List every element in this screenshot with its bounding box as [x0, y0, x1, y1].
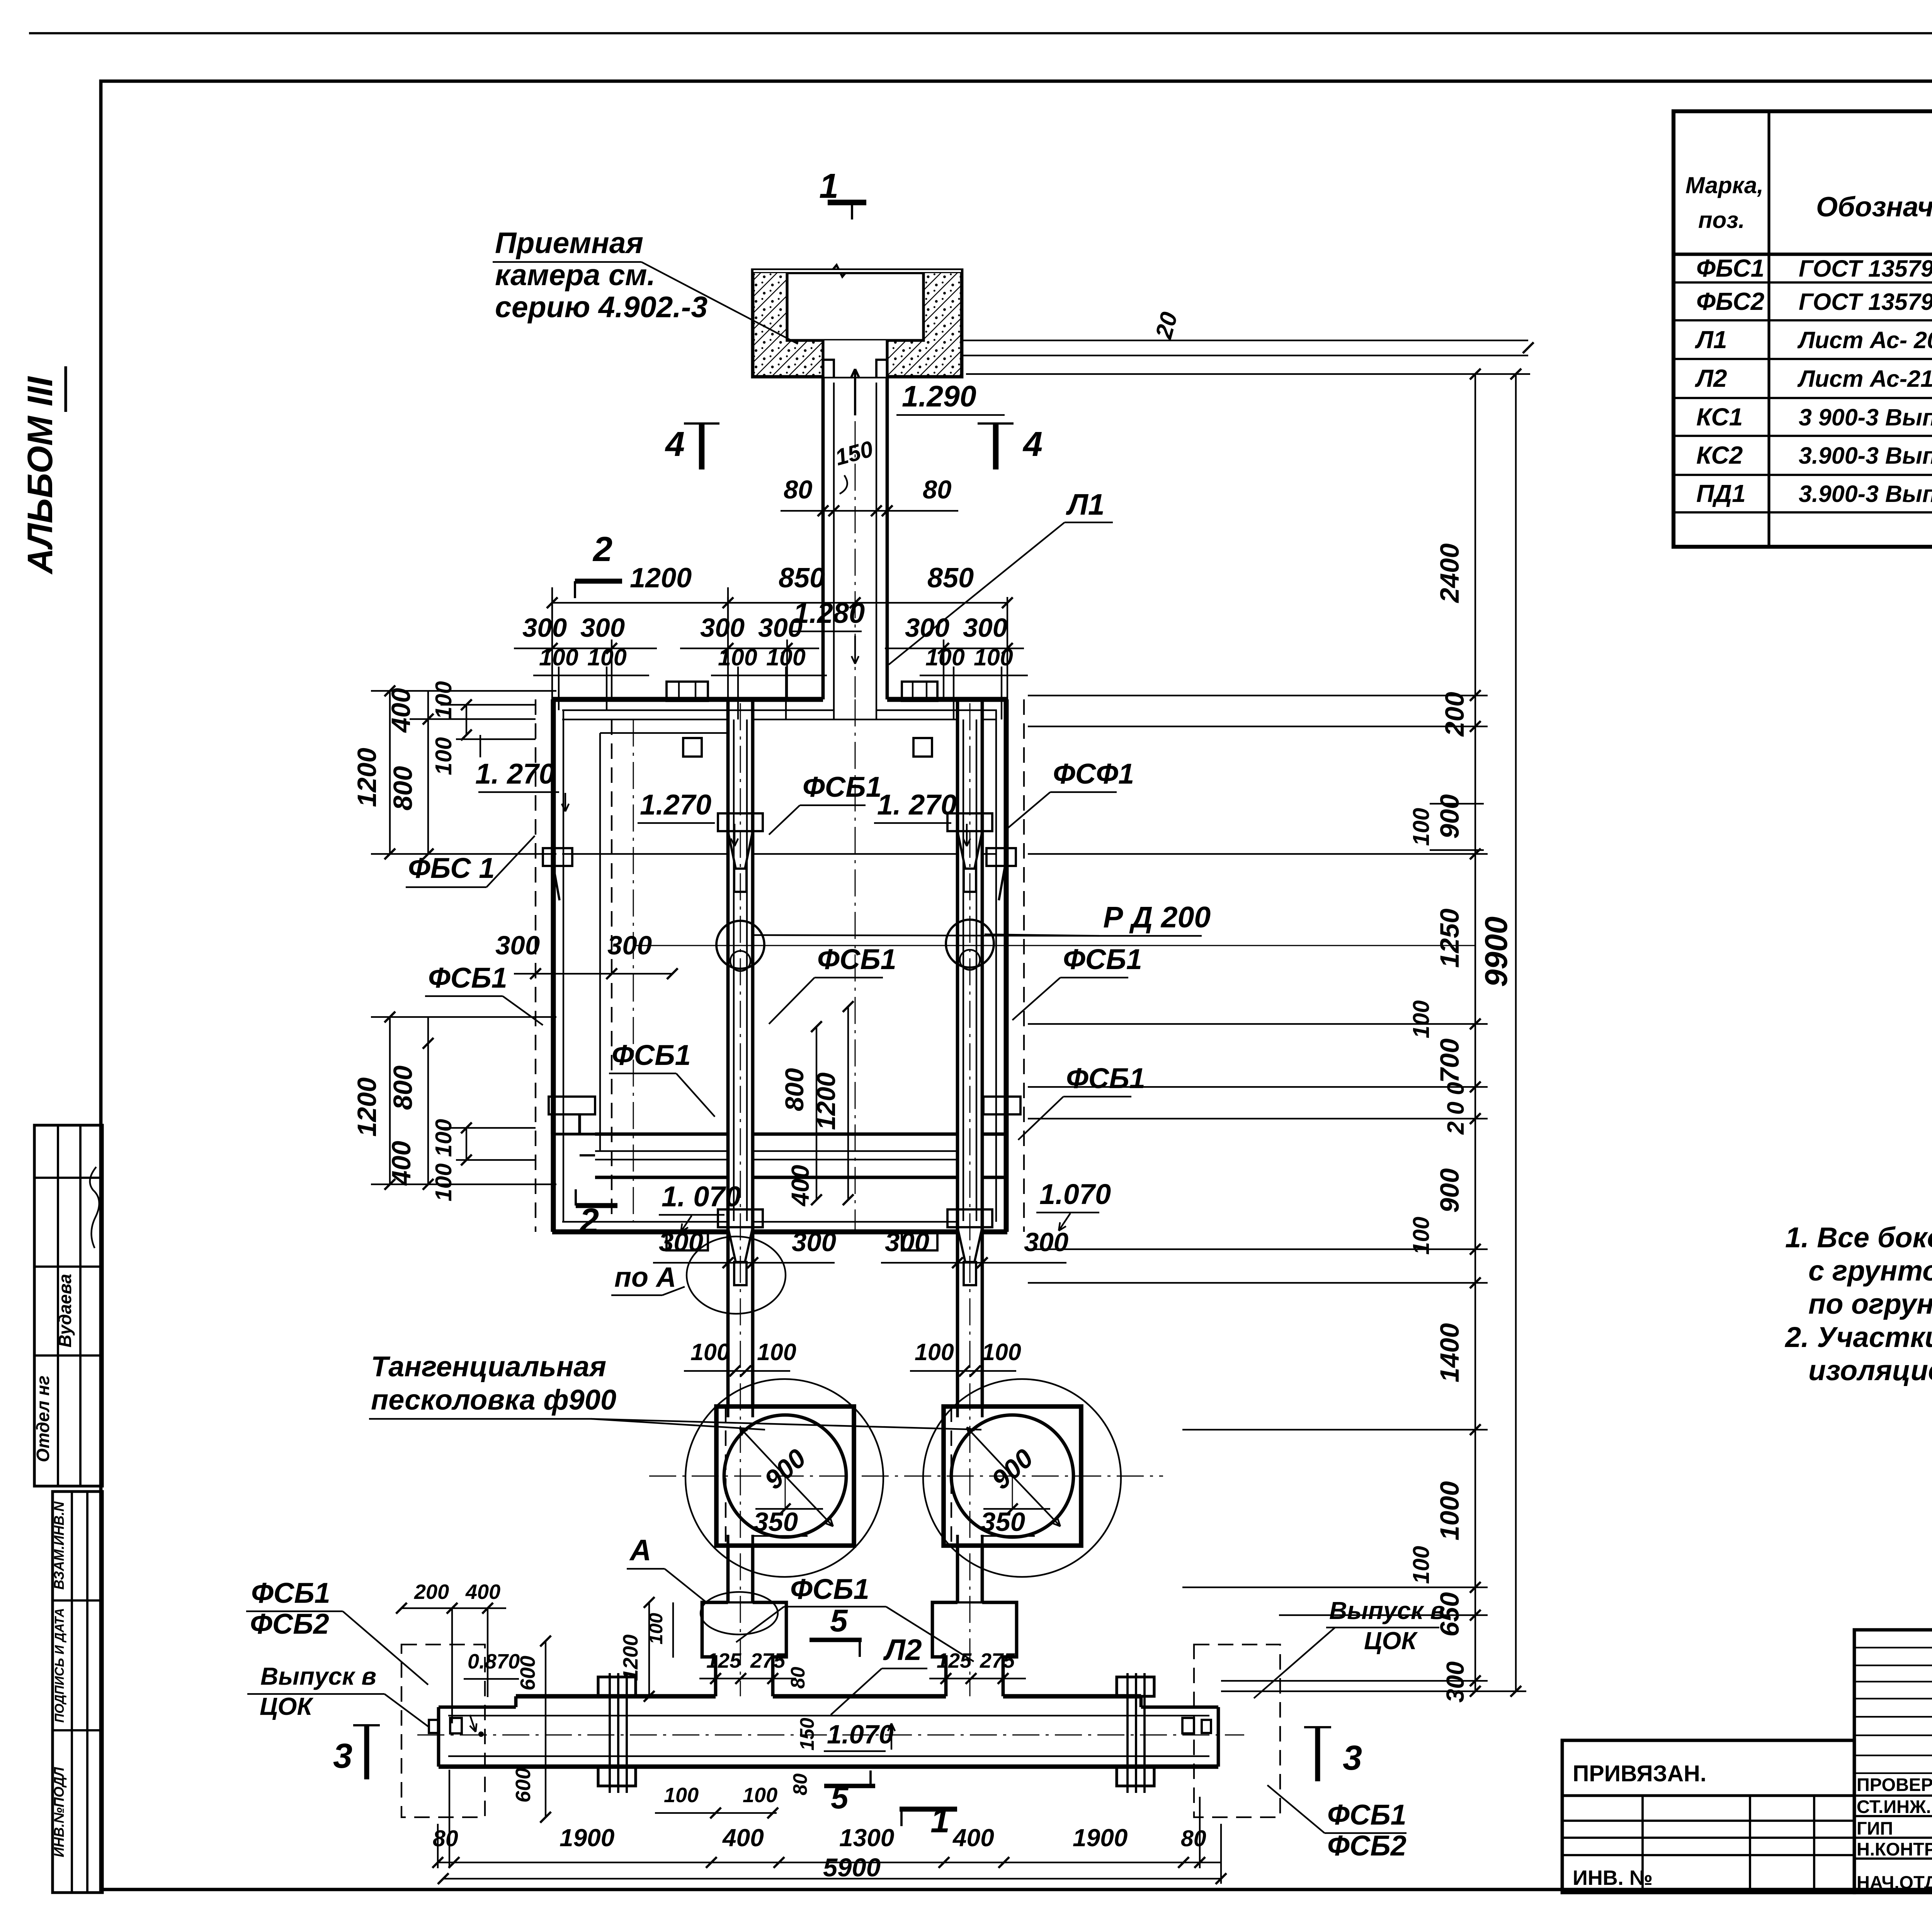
network mid horizontal channel: [595, 1133, 728, 1136]
sand trap left circle: [724, 1415, 846, 1537]
svg-text:ГИП: ГИП: [1857, 1818, 1893, 1838]
svg-text:4: 4: [665, 425, 685, 464]
channel centerlines dash-dot: [740, 703, 741, 1696]
svg-text:поз.: поз.: [1698, 207, 1745, 233]
svg-text:ИНВ. №: ИНВ. №: [1573, 1866, 1653, 1889]
svg-text:100: 100: [1408, 1000, 1434, 1039]
svg-text:300: 300: [522, 613, 567, 643]
svg-text:3 900-3 Вып 7: 3 900-3 Вып 7: [1799, 404, 1932, 430]
svg-text:1.270: 1.270: [640, 789, 711, 821]
dashed end box right: [1194, 1645, 1280, 1817]
svg-text:100: 100: [982, 1339, 1021, 1365]
right chain horizontal extension lines: [1028, 695, 1488, 696]
keyway joints below top wall: [683, 738, 702, 757]
sand trap right diameter dim: [967, 1427, 1012, 1476]
network right dashed outline: [1023, 699, 1025, 1232]
title block left part outline: [1562, 1740, 1854, 1893]
left end flange: [429, 1720, 438, 1733]
sand trap right square: [944, 1406, 1081, 1546]
network top wall: [552, 697, 823, 702]
right end flange: [1202, 1720, 1211, 1733]
svg-text:100: 100: [1408, 1546, 1434, 1584]
svg-text:80: 80: [787, 1667, 809, 1689]
svg-text:ФСБ1: ФСБ1: [1066, 1062, 1145, 1094]
svg-text:ПД1: ПД1: [1696, 480, 1746, 507]
right chain ticks: [1470, 690, 1481, 701]
svg-text:1. 270: 1. 270: [877, 789, 957, 821]
svg-text:ФСБ1: ФСБ1: [817, 943, 896, 975]
svg-text:ФБС2: ФБС2: [1696, 287, 1764, 315]
svg-text:1200: 1200: [352, 1077, 382, 1137]
svg-text:КС2: КС2: [1696, 441, 1743, 469]
svg-text:1300: 1300: [839, 1824, 894, 1852]
svg-text:Обозначение: Обозначение: [1816, 192, 1932, 223]
svg-text:ЦОК: ЦОК: [1364, 1627, 1418, 1655]
spec table columns: [1767, 111, 1770, 547]
cell centerline dash-dot middle: [855, 699, 856, 1231]
left margin stamp table upper: [34, 1125, 102, 1486]
svg-text:400: 400: [786, 1165, 814, 1207]
svg-text:АЛЬБОМ III: АЛЬБОМ III: [20, 376, 60, 575]
svg-text:ФСБ1: ФСБ1: [1063, 943, 1142, 975]
svg-text:серию 4.902.-3: серию 4.902.-3: [495, 291, 707, 324]
chamber label leader: [641, 262, 798, 344]
svg-text:100: 100: [587, 644, 627, 670]
svg-text:Р Д 200: Р Д 200: [1103, 901, 1211, 934]
bottom channel bottom wall: [439, 1764, 1218, 1769]
collar nozzle left channel: [718, 813, 763, 831]
cell centerline dash-dot left: [633, 719, 634, 1221]
svg-text:300: 300: [700, 613, 745, 643]
svg-text:300: 300: [580, 613, 625, 643]
svg-text:9900: 9900: [1479, 917, 1514, 987]
svg-text:300: 300: [607, 930, 652, 960]
svg-text:ПРОВЕР: ПРОВЕР: [1857, 1774, 1932, 1795]
valve assembly right: [1117, 1677, 1154, 1696]
svg-text:100: 100: [1408, 808, 1434, 846]
svg-text:2. Участки труб, соприкасающие: 2. Участки труб, соприкасающиеся с грунт…: [1784, 1321, 1932, 1353]
svg-text:камера см.: камера см.: [495, 259, 655, 292]
keyway joint top left: [667, 682, 708, 701]
svg-text:1.070: 1.070: [1039, 1178, 1111, 1210]
svg-text:100: 100: [431, 1119, 456, 1157]
svg-text:3.900-3 Вып.7: 3.900-3 Вып.7: [1799, 481, 1932, 507]
svg-text:ФБС1: ФБС1: [1696, 254, 1764, 282]
svg-text:ФСФ1: ФСФ1: [1053, 758, 1134, 790]
svg-text:Выпуск в: Выпуск в: [260, 1662, 376, 1690]
svg-text:3: 3: [333, 1737, 352, 1776]
svg-text:2: 2: [592, 530, 612, 569]
internal channel left: [726, 699, 730, 1406]
sand trap right balloon: [923, 1379, 1121, 1577]
left dim group upper: [389, 691, 391, 854]
svg-text:1200: 1200: [812, 1072, 841, 1130]
svg-text:80: 80: [923, 475, 952, 504]
svg-text:400: 400: [465, 1580, 500, 1604]
vertical channel from chamber: [821, 377, 825, 699]
svg-text:100: 100: [431, 1163, 456, 1202]
central table label rows: [1854, 1794, 1932, 1797]
svg-text:3.900-3 Вып.7: 3.900-3 Вып.7: [1799, 442, 1932, 469]
inner dashed verticals: [611, 719, 612, 1221]
svg-text:по огрунтовке из битума, раств: по огрунтовке из битума, растворенного в…: [1808, 1288, 1932, 1320]
svg-text:100: 100: [431, 737, 456, 776]
svg-text:2400: 2400: [1435, 543, 1464, 604]
svg-text:Л2: Л2: [1695, 364, 1727, 392]
svg-text:350: 350: [981, 1507, 1025, 1537]
svg-text:А: А: [629, 1534, 651, 1567]
keyway joints bottom wall: [667, 1232, 708, 1250]
svg-text:900: 900: [1435, 1168, 1464, 1213]
title block privyazan row line: [1562, 1794, 1854, 1797]
receiving chamber top break line: [753, 265, 962, 277]
svg-text:400: 400: [952, 1824, 994, 1852]
network left dashed outline: [535, 699, 536, 1232]
svg-text:275: 275: [980, 1649, 1015, 1672]
svg-text:ЦОК: ЦОК: [260, 1692, 313, 1720]
svg-text:Тангенциальная: Тангенциальная: [371, 1350, 606, 1383]
svg-text:125: 125: [937, 1649, 972, 1672]
sand trap left square: [716, 1406, 854, 1546]
svg-text:ФСБ1: ФСБ1: [1327, 1799, 1406, 1831]
sand trap left diameter dim: [740, 1427, 785, 1476]
svg-text:1900: 1900: [560, 1824, 614, 1852]
svg-text:200: 200: [1440, 692, 1469, 737]
junction block right: [932, 1602, 957, 1696]
left margin stamp table lower: [53, 1492, 102, 1893]
svg-text:1200: 1200: [630, 563, 692, 594]
svg-text:1. Все боковые поверхности ло: 1. Все боковые поверхности лотков, сопри…: [1785, 1221, 1932, 1253]
riser channel right below trap: [956, 1546, 959, 1602]
svg-text:Приемная: Приемная: [495, 226, 643, 260]
svg-text:3: 3: [1343, 1739, 1362, 1777]
receiving chamber outlet opening: [823, 340, 887, 377]
svg-text:НАЧ.ОТД: НАЧ.ОТД: [1857, 1872, 1932, 1893]
svg-text:100: 100: [690, 1339, 730, 1365]
svg-text:300: 300: [1024, 1227, 1068, 1257]
bottom channel top wall: [516, 1694, 716, 1699]
svg-text:Отдел нг: Отдел нг: [33, 1376, 53, 1462]
svg-text:ФСБ1: ФСБ1: [612, 1039, 691, 1071]
spec table header bottom: [1673, 253, 1932, 256]
svg-text:800: 800: [388, 766, 418, 810]
svg-text:400: 400: [386, 688, 416, 733]
svg-text:Марка,: Марка,: [1685, 172, 1764, 198]
svg-text:изоляцией усиленного типа по Г: изоляцией усиленного типа по ГОСТ 9.015-…: [1808, 1354, 1932, 1386]
sand trap right 350 dim: [1012, 1476, 1013, 1509]
RD regulator circle left: [716, 921, 764, 969]
title block left verticals: [1641, 1796, 1644, 1893]
svg-text:1900: 1900: [1073, 1824, 1128, 1852]
stamp signature squiggle: [90, 1167, 99, 1248]
svg-text:1.070: 1.070: [827, 1719, 894, 1749]
total dim 5900: [443, 1878, 1221, 1879]
svg-text:ФБС 1: ФБС 1: [408, 852, 495, 884]
svg-text:700: 700: [1435, 1038, 1464, 1083]
svg-text:300: 300: [495, 930, 540, 960]
internal channel right: [956, 699, 959, 1406]
sand trap left balloon: [685, 1379, 883, 1577]
centerline through regulators: [634, 945, 1476, 946]
svg-text:1. 270: 1. 270: [475, 758, 555, 790]
chamber channel centerline: [855, 379, 856, 697]
svg-text:с грунтом, обмазать горячим би: с грунтом, обмазать горячим битумом за д…: [1808, 1255, 1932, 1287]
valve assembly left: [598, 1677, 636, 1696]
collar on left wall: [543, 848, 572, 866]
svg-text:100: 100: [431, 681, 456, 719]
svg-text:Л1: Л1: [1066, 488, 1105, 521]
svg-text:900: 900: [1435, 794, 1464, 838]
receiving chamber outer walls hatched: [753, 270, 962, 377]
right elbow collar at mid channel: [983, 1097, 1020, 1114]
svg-text:СТ.ИНЖ.: СТ.ИНЖ.: [1857, 1796, 1931, 1817]
spec table outer: [1673, 111, 1932, 547]
svg-text:0.870: 0.870: [468, 1650, 520, 1673]
balloon A at junction: [701, 1592, 778, 1634]
svg-text:150: 150: [796, 1718, 818, 1750]
svg-text:200: 200: [414, 1580, 449, 1604]
svg-text:1000: 1000: [1435, 1481, 1464, 1541]
svg-text:600: 600: [512, 1768, 535, 1803]
sand trap right circle: [951, 1415, 1073, 1537]
svg-text:5: 5: [830, 1603, 848, 1638]
flow arrow left outlet: [470, 1715, 476, 1732]
svg-text:100: 100: [664, 1784, 699, 1807]
centerline through sand traps: [649, 1476, 1163, 1477]
svg-text:300: 300: [905, 613, 949, 643]
svg-text:Выпуск в: Выпуск в: [1329, 1597, 1445, 1624]
svg-text:песколовка ф900: песколовка ф900: [371, 1384, 616, 1416]
svg-text:100: 100: [915, 1339, 954, 1365]
svg-text:2 0 0: 2 0 0: [1442, 1082, 1469, 1135]
nozzle below bottom wall left: [718, 1209, 763, 1227]
inner island top line across: [562, 853, 728, 855]
RD regulator circle right: [946, 920, 994, 968]
svg-text:ФСБ2: ФСБ2: [1327, 1830, 1406, 1862]
svg-text:800: 800: [388, 1065, 418, 1110]
balloon po A: [687, 1236, 786, 1314]
svg-text:Л1: Л1: [1695, 326, 1727, 354]
bottom dim chain: [438, 1862, 1221, 1863]
svg-text:850: 850: [779, 563, 825, 594]
svg-text:1400: 1400: [1435, 1323, 1464, 1383]
network bottom wall: [552, 1230, 728, 1235]
network left wall: [551, 699, 556, 1232]
right dim chain total 9900: [1515, 374, 1517, 1691]
svg-text:80: 80: [784, 475, 813, 504]
left dim group upper extension lines: [371, 690, 556, 692]
svg-text:ФСБ1: ФСБ1: [803, 771, 882, 803]
paper top trim line: [29, 32, 1932, 34]
dashed end box left: [401, 1645, 485, 1817]
svg-text:275: 275: [750, 1649, 786, 1672]
bottom channel inner top line: [448, 1715, 1209, 1716]
network right wall: [1004, 699, 1009, 1232]
svg-text:ФСБ1: ФСБ1: [790, 1573, 869, 1605]
left elbow collar at mid channel: [549, 1097, 595, 1114]
svg-text:800: 800: [780, 1068, 809, 1111]
svg-text:Н.КОНТР: Н.КОНТР: [1857, 1839, 1932, 1859]
bottom channel centerline: [417, 1735, 1244, 1736]
extension lines bottom dims: [437, 1824, 439, 1868]
central table thin rows: [1854, 1647, 1932, 1648]
svg-text:850: 850: [927, 563, 974, 594]
svg-text:ИНВ.№ПОДЛ: ИНВ.№ПОДЛ: [51, 1767, 67, 1857]
left dim group lower: [389, 1017, 391, 1184]
extension verticals above network top: [551, 597, 553, 699]
svg-text:400: 400: [386, 1141, 416, 1186]
riser channel left below trap: [726, 1546, 730, 1602]
junction block left: [702, 1602, 728, 1696]
svg-text:300: 300: [792, 1227, 836, 1257]
svg-text:100: 100: [718, 644, 757, 670]
svg-text:ПРИВЯЗАН.: ПРИВЯЗАН.: [1573, 1761, 1706, 1786]
svg-text:400: 400: [722, 1824, 764, 1852]
svg-text:ПОДПИСЬ И ДАТА: ПОДПИСЬ И ДАТА: [52, 1608, 66, 1723]
svg-text:300: 300: [885, 1227, 929, 1257]
svg-text:ФСБ2: ФСБ2: [250, 1608, 329, 1640]
svg-text:1.280: 1.280: [793, 597, 865, 629]
svg-text:4: 4: [1022, 425, 1043, 464]
svg-text:100: 100: [646, 1613, 667, 1645]
svg-text:1200: 1200: [619, 1634, 642, 1681]
svg-text:КС1: КС1: [1696, 403, 1743, 431]
svg-text:1200: 1200: [352, 748, 382, 807]
svg-text:80: 80: [789, 1774, 811, 1796]
svg-text:Лист Ас-21: Лист Ас-21: [1797, 366, 1932, 392]
right chain top extension: [966, 373, 1530, 375]
inner island walls left cell: [599, 733, 601, 1150]
collar nozzle right channel: [947, 813, 992, 831]
svg-text:ФСБ1: ФСБ1: [428, 962, 507, 994]
svg-text:100: 100: [743, 1784, 777, 1807]
svg-text:по А: по А: [614, 1262, 676, 1293]
bottom channel end caps: [437, 1707, 440, 1767]
sand trap left 350 dim: [785, 1476, 786, 1509]
svg-text:125: 125: [706, 1649, 742, 1672]
svg-text:80: 80: [433, 1826, 458, 1851]
channel stubs through sand trap squares: [726, 1406, 729, 1417]
svg-text:ФСБ1: ФСБ1: [251, 1577, 330, 1609]
svg-text:100: 100: [766, 644, 806, 670]
ground lines right of chamber: [962, 340, 1528, 341]
svg-text:1. 070: 1. 070: [662, 1180, 741, 1213]
svg-text:300: 300: [1441, 1662, 1469, 1703]
svg-text:80: 80: [1181, 1826, 1206, 1851]
svg-text:Вудаева: Вудаева: [55, 1274, 75, 1348]
keyway joint top right: [902, 682, 937, 701]
svg-text:1250: 1250: [1435, 908, 1464, 968]
svg-text:100: 100: [925, 644, 965, 670]
receiving chamber interior: [787, 273, 923, 340]
svg-text:Л2: Л2: [883, 1633, 922, 1667]
bottom channel outlet walls: [439, 1706, 516, 1709]
flow arrow up in channel: [854, 369, 856, 415]
spec table row lines: [1673, 281, 1932, 284]
svg-text:1.290: 1.290: [902, 380, 976, 413]
svg-text:100: 100: [757, 1339, 796, 1365]
svg-text:ВЗАМ.ИНВ.N: ВЗАМ.ИНВ.N: [51, 1501, 67, 1590]
svg-text:ГОСТ 13579-78: ГОСТ 13579-78: [1799, 255, 1932, 282]
svg-text:300: 300: [963, 613, 1007, 643]
svg-text:100: 100: [539, 644, 578, 670]
svg-text:600: 600: [516, 1656, 539, 1690]
svg-text:5900: 5900: [823, 1853, 881, 1882]
svg-text:350: 350: [753, 1507, 798, 1537]
nozzle below bottom wall right: [947, 1209, 992, 1227]
title block central table outline: [1854, 1630, 1932, 1893]
left dim group lower extension lines: [371, 1016, 556, 1018]
svg-text:ГОСТ 13579-78: ГОСТ 13579-78: [1799, 289, 1932, 315]
right dim chain main: [1475, 374, 1476, 1691]
collar on right wall: [986, 848, 1016, 866]
svg-text:Лист Ас- 20: Лист Ас- 20: [1797, 327, 1932, 353]
